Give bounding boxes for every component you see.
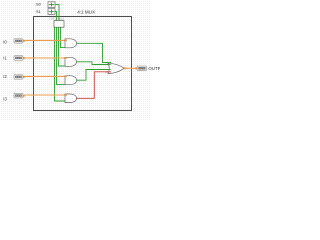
junction dot G4 input [65, 94, 67, 96]
wire OR output [124, 67, 126, 69]
svg-text:1-8P 2:4 dcd: 1-8P 2:4 dcd [49, 18, 64, 21]
AND gate G1 [65, 39, 77, 48]
select line B (to gate G3) [57, 27, 66, 84]
wire I2 to G3 [25, 75, 66, 77]
svg-text:S0: S0 [36, 2, 42, 7]
AND gate G3 [65, 76, 77, 85]
OR gate U2 [108, 63, 124, 73]
wire OR input stub 1 [105, 62, 111, 64]
svg-text:4:1 MUX: 4:1 MUX [77, 10, 95, 15]
svg-text:I0: I0 [3, 40, 7, 45]
wire G3 output to OR [77, 70, 109, 81]
select line C (to gate G2) [59, 27, 66, 66]
background dotted grid [0, 0, 160, 120]
input pin I2 [14, 75, 25, 80]
svg-text:S1: S1 [36, 9, 42, 14]
AND gate G4 [65, 94, 77, 103]
enclosing box 4:1 MUX [34, 17, 132, 111]
wire S0 to decoder [55, 5, 59, 21]
junction dot G2 input [65, 57, 67, 59]
wire S1 to decoder [55, 12, 57, 21]
junction dot G3 input [65, 76, 67, 78]
AND gate G2 [65, 57, 77, 66]
wire I3 to G4 [25, 94, 66, 96]
wire OR input stub 2 [105, 64, 111, 66]
svg-text:I1: I1 [3, 56, 7, 61]
wire OR input stub 4 (red) [105, 71, 112, 73]
wire G1 output to OR [77, 43, 109, 62]
junction dot G1 input [65, 40, 67, 42]
input pin S1 [48, 9, 55, 15]
select line A (to gate G4) [55, 27, 66, 101]
input pin I1 [14, 56, 25, 61]
input pin I0 [14, 39, 25, 44]
input pin S0 [48, 2, 55, 8]
input pin I3 [14, 93, 25, 98]
svg-text:I2: I2 [3, 74, 7, 79]
output pin OUTPUT [135, 66, 146, 71]
wire G4 output to OR (red) [76, 72, 108, 99]
svg-text:OUTPUT: OUTPUT [148, 66, 160, 71]
select line D (to gate G1) [61, 27, 66, 47]
svg-text:I3: I3 [3, 96, 7, 101]
wire OR input stub 3 [105, 69, 111, 71]
wire I0 to G1 [25, 39, 66, 41]
wire I1 to G2 [25, 57, 66, 59]
decoder U1 [54, 21, 64, 28]
wire G2 output to OR [77, 62, 109, 65]
